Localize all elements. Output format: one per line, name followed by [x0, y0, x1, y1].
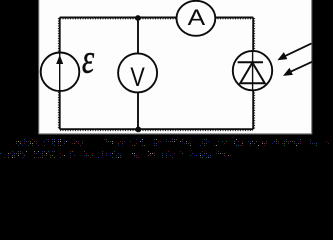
svg-text:ε: ε — [82, 37, 95, 82]
wire: voltmeter branch — [137, 18, 139, 130]
node: bottom junction dot — [135, 126, 141, 132]
caption text line 1 (illegible speckle) — [16, 139, 329, 146]
wire texture: left dotted edge lower — [57, 92, 59, 129]
wire: top horizontal — [60, 17, 254, 19]
caption text line 2 (illegible speckle) — [0, 151, 231, 158]
voltmeter U-V circle — [118, 53, 157, 92]
photodiode triangle — [240, 63, 265, 84]
wire texture: left dotted edge upper — [57, 18, 59, 52]
wire texture: top dotted edge — [60, 18, 253, 20]
wire: right vertical upper — [252, 18, 254, 52]
black page background — [0, 0, 333, 177]
svg-text:V: V — [130, 63, 145, 93]
wire: left vertical lower — [59, 91, 61, 129]
wire texture: bottom dotted edge — [60, 130, 253, 132]
wire texture: right dotted edge upper — [254, 18, 256, 51]
wire: EMF arrow shaft — [59, 52, 61, 92]
source G1 circle (EMF) — [41, 53, 80, 92]
photodiode cathode bar — [238, 61, 263, 63]
light arrow 2 shaft — [287, 62, 313, 74]
white figure panel — [39, 0, 312, 134]
wire: photodiode inner shaft — [252, 51, 254, 90]
wire texture: right dotted edge lower — [254, 90, 256, 129]
light arrow 2 head — [283, 68, 293, 76]
light arrow 1 shaft — [281, 43, 312, 58]
wire: bottom horizontal — [60, 128, 254, 130]
svg-text:A: A — [188, 6, 206, 31]
wire: left vertical upper — [59, 18, 61, 54]
light arrow 1 head — [277, 52, 287, 60]
node: top junction dot — [135, 15, 141, 21]
ammeter U-A circle — [177, 1, 216, 36]
panel edge fade right — [311, 0, 313, 134]
wire: right vertical lower — [252, 90, 254, 129]
source G1 arrowhead — [56, 55, 63, 64]
panel edge fade bottom — [39, 133, 313, 135]
photodiode VD1 circle — [233, 51, 272, 90]
panel edge fade left — [38, 0, 40, 134]
